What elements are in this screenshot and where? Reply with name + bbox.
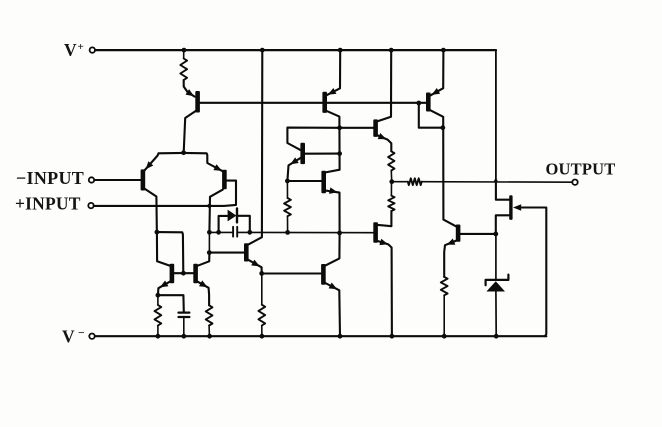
svg-text:−INPUT: −INPUT [16,168,84,188]
mosfet M1 gate arrow [513,204,521,211]
wire R4 to rail [261,326,263,337]
node Q10 base junction [416,101,421,106]
transistor Q6 [321,171,326,193]
wire tail to Q3 emitter [184,153,223,171]
wire Q1 base line [200,102,427,104]
transistor Q7 emitter arrow [251,260,260,267]
node C1 rail junction [181,334,186,339]
wire Z1 anode lead [495,292,497,337]
node tail junction [181,150,186,155]
transistor Qm2 [193,264,198,283]
node R4 rail junction [260,334,265,339]
resistor R6 [388,151,394,170]
wire V- bottom rail [95,335,546,337]
wire Q8 collector [378,50,392,121]
wire Q5 emitter [287,158,300,181]
capacitor C2 right plate [236,227,238,237]
zener Z1 triangle [486,281,505,291]
resistor R1 [180,59,187,81]
resistor R7 [408,178,422,185]
wire Qs collector [325,233,339,266]
svg-text:OUTPUT: OUTPUT [546,159,616,178]
transistor Q5 emitter arrow [290,157,299,164]
resistor R2 lead [157,295,159,305]
node Q3/Qm2 collector junction [207,230,212,235]
transistor Q6 emitter arrow [329,187,338,194]
wire M1 source tap [496,215,509,234]
node follower base tap [207,250,212,255]
node M1 source junction [493,232,498,237]
zener Z1 cathode bar [486,275,509,286]
node -INPUT [16,168,94,188]
wire Z1 cathode lead [495,234,497,280]
transistor Qm2 emitter arrow [199,280,208,287]
transistor Qs [321,264,326,285]
wire Q4 collector [327,111,340,170]
node Q5 emitter junction [285,179,290,184]
wire V+ rail corner down to output node [495,50,497,181]
wire comp line [209,231,233,233]
wire M1 drain tap [496,181,509,200]
wire Q2 collector [145,189,157,232]
wire Qm1 emitter [158,282,170,296]
wire V+ top rail [95,49,496,51]
junction blob at output crossing [494,179,497,182]
wire R7 left lead [392,181,408,183]
wire comp line 2 [237,231,374,233]
svg-text:V: V [62,327,75,347]
wire R1 top lead [183,50,185,58]
resistor R5 lead [286,181,288,198]
wire Qm2 emitter [197,282,209,306]
svg-text:+INPUT: +INPUT [15,194,81,214]
resistor R4 lead [261,273,263,304]
wire Q2 collector to mirror bases [157,232,183,273]
wire 209 column [208,232,210,252]
wire Qm2 collector [197,253,209,266]
transistor Q9 [373,222,378,243]
transistor Q8 [373,119,378,136]
node Z1 rail junction [494,334,499,339]
node +INPUT [15,194,94,214]
wire Q3 collector [209,190,222,233]
node output R junction [389,179,394,184]
node Q7 emitter junction [259,271,264,276]
node Q4 emitter rail junction [338,48,343,53]
capacitor C2 left plate [232,227,234,237]
transistor Q2 (-input) [141,169,146,190]
node Q10 emitter rail junction [441,48,446,53]
transistor Q1 [195,91,200,113]
resistor R9 [441,277,448,295]
svg-text:V: V [64,40,77,60]
transistor Q11 emitter arrow [447,239,456,245]
wire Q11 base [460,233,496,235]
transistor Qs emitter arrow [329,283,338,290]
transistor Q8 emitter arrow [378,133,387,139]
node junction V+ / R1 [182,48,187,53]
node mirror base junction [181,271,186,276]
wire output line [422,181,573,184]
wire R2 to rail [157,326,159,337]
node comp A [216,230,221,235]
node Q2 collector junction [155,230,160,235]
wire R1 to Q1 emitter [184,80,195,97]
wire +input to Q3 base [94,181,236,206]
svg-text:−: − [78,328,85,340]
svg-text:+: + [78,41,84,53]
V- terminal [62,327,95,347]
node Q10 collector loop junction [440,125,445,130]
wire Q5 base line [305,153,340,155]
wire Q6 emitter [326,191,340,233]
node Qm1 emitter junction [156,293,161,298]
wire level line [340,127,374,129]
wire Q5 collector loop [287,128,339,151]
mosfet M1 channel [509,195,512,220]
node Qs emitter rail junction [338,334,343,339]
wire Q10 collector [430,110,456,226]
transistor Q4 emitter arrow [328,88,337,95]
wire R5 to comp line [287,216,289,232]
capacitor C1 bottom plate [179,316,190,318]
wire M1 gate [522,208,547,337]
V+ terminal [64,40,95,60]
node V+ bus junction [260,48,265,53]
diode D1 [228,208,237,222]
resistor R8 [388,196,394,211]
wire R8 to Q9 collector [378,211,392,226]
resistor R8 lead [390,182,392,196]
wire Qm1 collector [157,232,170,266]
resistor R3 [206,305,213,325]
wire Q7 collector to V+ bus [248,50,262,245]
node Qs/Q6 comp junction [337,231,342,236]
junction blob at +input crossing [207,204,211,208]
resistor R4 [258,305,265,326]
wire Qm1 emitter to C1 [158,295,184,312]
wire follower base line [209,252,244,254]
transistor Qm1 [170,264,175,283]
wire R6 to output node [390,171,392,182]
node comp B [247,230,252,235]
node Q8 collector rail junction [389,48,394,53]
transistor Q2 emitter arrow [146,161,154,169]
wire Q10 emitter [430,50,443,96]
transistor Q1 emitter arrow [186,89,195,96]
node R5 comp junction [285,230,290,235]
capacitor C1 top plate [179,312,190,314]
wire Qs emitter [325,283,340,336]
node Q9 emitter rail junction [390,334,395,339]
transistor Q4 [322,92,327,113]
resistor R5 [284,198,291,216]
transistor Q5 [300,143,305,164]
wire D1 bypass left [219,216,228,232]
transistor Qm1 emitter arrow [160,281,169,288]
wire Q8 emitter [378,135,392,151]
transistor Q11 [456,225,461,242]
wire Q10 base-collector loop [419,103,443,128]
node R2 rail junction [156,334,161,339]
wire mirror base line [174,272,194,274]
transistor Q3 (+input) [222,170,227,190]
wire Q7 emitter [248,260,262,274]
wire Q1 collector [184,111,197,153]
node R9 rail junction [442,334,447,339]
wire D1 bypass right [238,216,250,233]
wire R9 to rail [443,295,445,336]
wire R3 to rail [208,326,210,337]
transistor Q10 [426,93,431,112]
wire Q9 emitter [378,241,392,336]
transistor Q10 emitter arrow [432,88,441,95]
transistor Q9 emitter arrow [379,239,388,245]
transistor Q3 emitter arrow [213,164,222,171]
wire Q6 collector [326,170,340,173]
wire Q7 emitter to Qs base [262,272,322,274]
node level line junction [337,125,342,130]
node R3 rail junction [207,334,212,339]
wire C1 to rail [183,317,185,336]
wire Q11 emitter [444,241,456,277]
resistor R2 [155,305,162,326]
wire Q6 base [287,180,321,182]
wire tail to Q2 emitter [145,153,184,170]
transistor Q7 [244,243,249,261]
node OUTPUT [546,159,616,185]
wire Q4 emitter [327,50,341,95]
node Q5 base junction [337,151,342,156]
wire -input to Q2 base [94,179,141,181]
